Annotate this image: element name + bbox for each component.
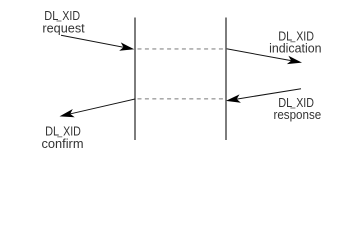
svg-text:response: response	[274, 107, 322, 122]
svg-text:indication: indication	[269, 40, 321, 55]
arrow DL_XID confirm head	[60, 109, 75, 117]
station bar left	[134, 18, 136, 141]
dashed transit line lower	[138, 98, 225, 100]
station bar right	[225, 18, 227, 141]
arrow DL_XID request shaft	[61, 35, 130, 48]
dashed transit line upper	[138, 48, 225, 50]
svg-text:request: request	[42, 20, 85, 35]
arrow DL_XID indication shaft	[227, 49, 299, 62]
svg-text:confirm: confirm	[42, 136, 84, 151]
arrow DL_XID response head	[226, 94, 241, 102]
arrow DL_XID confirm shaft	[64, 99, 135, 115]
arrow DL_XID request head	[119, 42, 134, 50]
arrow DL_XID indication head	[287, 56, 302, 64]
arrow DL_XID response shaft	[230, 89, 301, 101]
